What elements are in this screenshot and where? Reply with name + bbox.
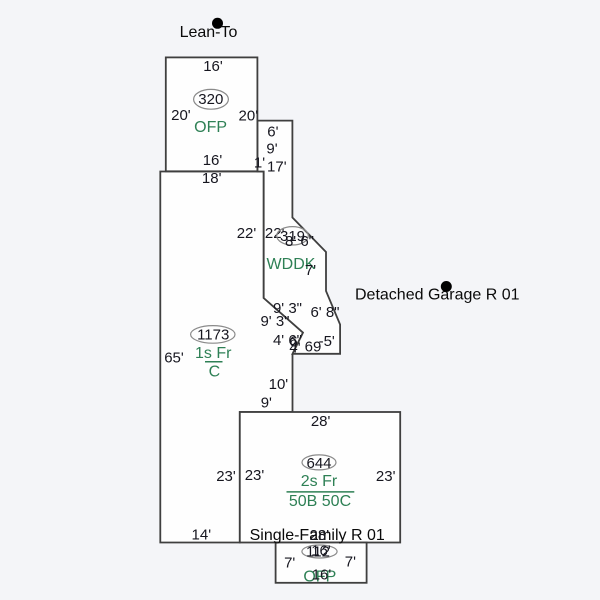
svg-text:4': 4' [289, 340, 300, 357]
svg-text:6' 8": 6' 8" [310, 304, 339, 321]
Lean-To marker dot [212, 18, 223, 29]
svg-text:7': 7' [284, 554, 295, 571]
svg-text:50B 50C: 50B 50C [289, 493, 351, 510]
svg-text:23': 23' [245, 467, 265, 484]
svg-text:OFP: OFP [194, 119, 227, 136]
area ellipse 112 [302, 545, 337, 558]
area ellipse 320 [194, 89, 229, 109]
open frame porch OFP top rect [166, 57, 258, 171]
area ellipse 319 [277, 227, 309, 245]
1s Fr underline [205, 361, 223, 363]
svg-text:65': 65' [164, 350, 184, 367]
svg-text:9': 9' [266, 140, 277, 157]
2s Fr underline [287, 491, 355, 493]
svg-text:8' 6": 8' 6" [285, 233, 314, 250]
svg-text:23': 23' [376, 468, 396, 485]
svg-text:20': 20' [171, 107, 191, 124]
Detached Garage marker dot [441, 281, 452, 292]
svg-text:28': 28' [311, 413, 331, 430]
svg-text:C: C [209, 364, 221, 381]
wood deck WDDK outline [257, 121, 340, 354]
2s Fr rect 644 [240, 412, 400, 543]
svg-text:1173: 1173 [197, 327, 229, 344]
svg-text:18': 18' [202, 170, 222, 187]
svg-text:28': 28' [310, 527, 330, 544]
svg-text:16': 16' [312, 566, 332, 583]
svg-text:7': 7' [305, 262, 316, 279]
svg-text:14': 14' [192, 526, 212, 543]
svg-text:644: 644 [306, 455, 331, 472]
svg-text:16': 16' [311, 543, 331, 560]
svg-text:-5': -5' [319, 333, 335, 350]
svg-text:1': 1' [254, 154, 265, 171]
main house 1s Fr outline [160, 172, 303, 543]
svg-text:22': 22' [237, 225, 257, 242]
svg-text:9': 9' [261, 395, 272, 412]
svg-text:10': 10' [269, 376, 289, 393]
svg-text:23': 23' [216, 468, 236, 485]
svg-text:320: 320 [198, 91, 223, 108]
svg-text:6': 6' [267, 124, 278, 141]
svg-text:Detached Garage R 01: Detached Garage R 01 [355, 287, 520, 304]
svg-text:7': 7' [345, 553, 356, 570]
svg-text:1s Fr: 1s Fr [195, 345, 232, 362]
svg-text:16': 16' [203, 152, 223, 169]
open frame porch OFP bottom rect [276, 543, 367, 583]
svg-text:16': 16' [203, 58, 223, 75]
area ellipse 1173 [191, 326, 235, 344]
svg-text:9' 3": 9' 3" [260, 313, 289, 330]
svg-text:2s Fr: 2s Fr [301, 473, 338, 490]
area ellipse 644 [302, 455, 336, 470]
svg-text:Lean-To: Lean-To [180, 24, 238, 41]
svg-text:17': 17' [267, 158, 287, 175]
svg-text:20': 20' [239, 108, 259, 125]
